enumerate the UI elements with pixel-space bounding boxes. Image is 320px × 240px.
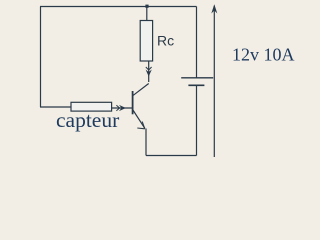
resistor Rc (140, 21, 152, 62)
battery V1 negative plate (188, 84, 204, 86)
wire Rc bottom lead (148, 61, 150, 82)
wire lower-left rail (40, 106, 71, 108)
wire top rail (40, 6, 197, 8)
svg-text:12v 10A: 12v 10A (232, 44, 295, 64)
resistor capteur (71, 102, 112, 111)
wire base lead (112, 107, 133, 109)
svg-text:capteur: capteur (56, 108, 119, 132)
transistor Q1 collector (133, 84, 149, 96)
wire right rail upper (196, 7, 198, 79)
emitter arrowhead (142, 122, 145, 129)
battery V1 positive plate (181, 77, 213, 79)
wire bottom rail (146, 155, 197, 157)
wire left rail (40, 7, 42, 108)
transistor Q1 base bar (132, 91, 134, 114)
transistor Q1 emitter (133, 110, 145, 129)
svg-text:Rc: Rc (157, 33, 174, 49)
voltage arrow (213, 6, 215, 157)
wire right rail lower (196, 85, 198, 155)
wire Rc top lead (146, 7, 148, 21)
node junction top (145, 5, 148, 8)
current arrow on base lead (119, 105, 126, 111)
current arrow on collector lead (146, 70, 152, 77)
wire emitter down lead (145, 129, 147, 156)
